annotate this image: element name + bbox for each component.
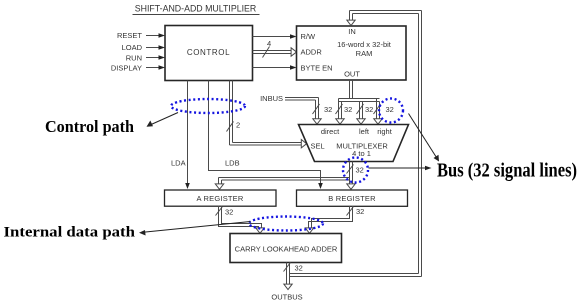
svg-text:16-word x 32-bit: 16-word x 32-bit bbox=[337, 40, 392, 49]
svg-text:B REGISTER: B REGISTER bbox=[328, 194, 376, 203]
bus mux input direct-2 (from RAM OUT) bbox=[336, 99, 353, 125]
bus mux input right (from RAM OUT) bbox=[374, 99, 394, 125]
svg-text:32: 32 bbox=[295, 264, 303, 273]
wire BYTE EN control to RAM bbox=[253, 65, 297, 70]
svg-text:BYTE EN: BYTE EN bbox=[301, 64, 333, 73]
wire LDA control to A register bbox=[171, 81, 190, 190]
input DISPLAY bbox=[111, 64, 165, 73]
svg-text:CARRY LOOKAHEAD ADDER: CARRY LOOKAHEAD ADDER bbox=[235, 245, 338, 254]
bus ADDR 4-bit control to RAM bbox=[253, 39, 297, 58]
svg-text:LDB: LDB bbox=[225, 159, 240, 168]
bus feedback loop (adder output to RAM IN) bbox=[290, 11, 422, 277]
svg-text:Internal data path: Internal data path bbox=[4, 224, 136, 241]
svg-text:LOAD: LOAD bbox=[122, 43, 143, 52]
svg-text:4: 4 bbox=[267, 39, 271, 48]
bus SEL 2-bit control to mux bbox=[227, 81, 307, 148]
block CARRY LOOKAHEAD ADDER bbox=[230, 234, 342, 263]
svg-text:RAM: RAM bbox=[356, 49, 373, 58]
label Internal data path with arrow bbox=[4, 222, 251, 241]
svg-text:left: left bbox=[359, 127, 370, 136]
svg-text:32: 32 bbox=[386, 105, 394, 114]
svg-text:OUT: OUT bbox=[344, 70, 360, 79]
title SHIFT-AND-ADD MULTIPLIER bbox=[133, 4, 260, 15]
wire R/W control to RAM bbox=[253, 34, 297, 39]
block A REGISTER bbox=[165, 190, 277, 206]
svg-text:32: 32 bbox=[365, 105, 373, 114]
annotation blue dotted circle (bus 32) bbox=[343, 158, 368, 183]
block CONTROL U1 bbox=[165, 26, 253, 81]
block RAM 16-word x 32-bit bbox=[297, 26, 407, 80]
svg-text:IN: IN bbox=[348, 27, 356, 36]
input RUN bbox=[126, 54, 165, 63]
svg-text:ADDR: ADDR bbox=[301, 48, 323, 57]
annotation blue dotted circle (mux right input 32) bbox=[379, 99, 403, 123]
svg-text:32: 32 bbox=[324, 105, 332, 114]
svg-text:direct: direct bbox=[321, 127, 340, 136]
svg-text:LDA: LDA bbox=[171, 159, 186, 168]
svg-text:SEL: SEL bbox=[311, 142, 325, 151]
bus mux input left (from RAM OUT) bbox=[357, 101, 374, 124]
label Bus (32 signal lines) with arrows bbox=[369, 114, 578, 182]
mux MULTIPLEXER 4 to 1 bbox=[299, 125, 409, 162]
bus mux output to registers bbox=[215, 162, 364, 190]
svg-text:32: 32 bbox=[356, 207, 364, 216]
annotation blue dotted ellipse (control path) bbox=[171, 99, 245, 113]
svg-text:A REGISTER: A REGISTER bbox=[196, 194, 243, 203]
bus INBUS to mux input direct bbox=[260, 94, 332, 124]
label Control path with arrow bbox=[45, 113, 178, 137]
svg-text:right: right bbox=[377, 127, 393, 136]
svg-text:Control path: Control path bbox=[45, 117, 134, 136]
svg-text:DISPLAY: DISPLAY bbox=[111, 64, 142, 73]
wire LDB control to B register bbox=[209, 81, 323, 190]
svg-text:32: 32 bbox=[344, 105, 352, 114]
svg-text:INBUS: INBUS bbox=[260, 94, 283, 103]
svg-text:RESET: RESET bbox=[117, 31, 142, 40]
input RESET bbox=[117, 31, 165, 40]
svg-text:SHIFT-AND-ADD MULTIPLIER: SHIFT-AND-ADD MULTIPLIER bbox=[135, 4, 257, 14]
svg-text:RUN: RUN bbox=[126, 54, 142, 63]
svg-text:OUTBUS: OUTBUS bbox=[271, 293, 302, 302]
bus RAM OUT tee bbox=[339, 80, 380, 102]
block B REGISTER bbox=[297, 190, 408, 206]
svg-text:CONTROL: CONTROL bbox=[187, 48, 230, 57]
svg-text:2: 2 bbox=[236, 121, 240, 130]
bus adder output to OUTBUS bbox=[271, 263, 302, 302]
svg-text:R/W: R/W bbox=[301, 32, 317, 41]
svg-text:4 to 1: 4 to 1 bbox=[352, 149, 371, 158]
annotation blue dotted ellipse (internal data path) bbox=[249, 217, 323, 231]
bus B register output to adder bbox=[305, 206, 364, 233]
svg-text:32: 32 bbox=[356, 166, 364, 175]
bus A register output to adder bbox=[216, 206, 265, 234]
svg-text:32: 32 bbox=[225, 208, 233, 217]
input LOAD bbox=[122, 43, 165, 52]
svg-text:Bus (32 signal lines): Bus (32 signal lines) bbox=[437, 161, 577, 182]
